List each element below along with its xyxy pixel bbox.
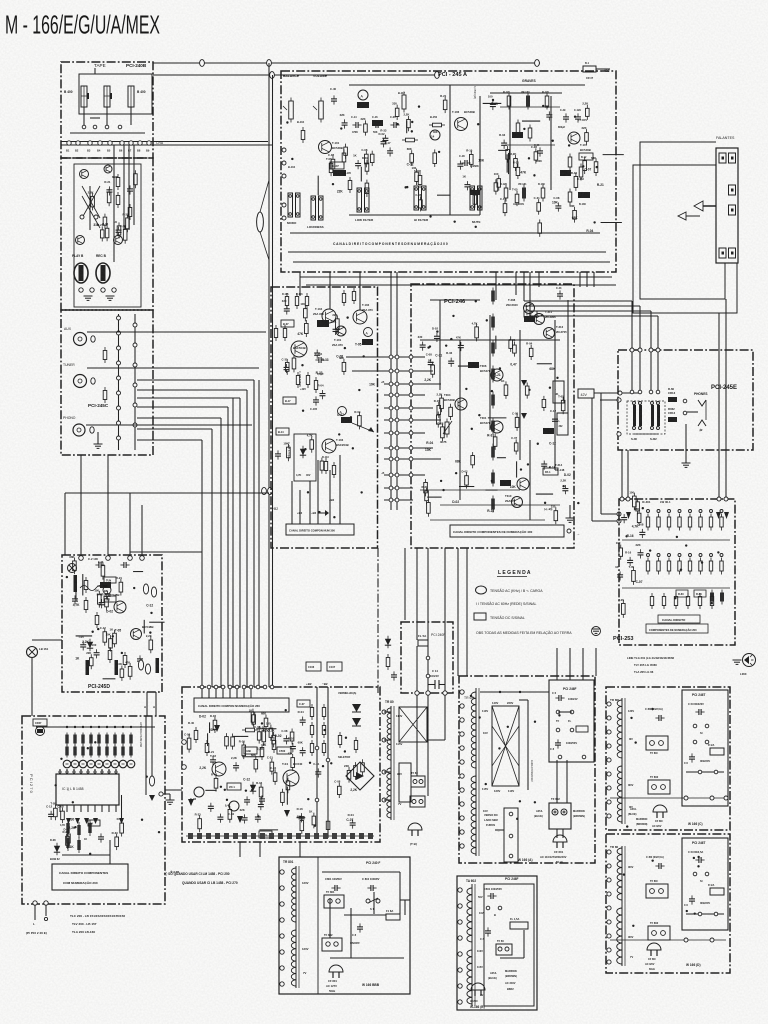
junction buspinL3 bbox=[389, 393, 393, 397]
resistor l-colB-2 bbox=[82, 745, 84, 758]
resistor bbox=[595, 158, 597, 162]
junction left pin5 bbox=[282, 216, 286, 220]
wire bbox=[497, 457, 506, 459]
junction i-p1-7 bbox=[720, 510, 723, 513]
wire g-int7 bbox=[413, 447, 433, 449]
resistor bbox=[255, 756, 257, 760]
junction dot bbox=[475, 226, 477, 228]
capacitor bbox=[466, 181, 468, 185]
resistor bbox=[104, 214, 106, 218]
junction dot bbox=[158, 831, 160, 833]
junction i-p1-4 bbox=[689, 510, 692, 513]
resistor m-r20 bbox=[339, 732, 341, 736]
junction sw1 bbox=[80, 215, 84, 219]
switch S1 o bbox=[366, 899, 370, 903]
resistor mc-r105 bbox=[286, 293, 288, 297]
electrolytic m-c04 bbox=[229, 801, 239, 811]
electrolytic l-4 bbox=[95, 760, 103, 768]
resistor gr-126 bbox=[546, 93, 548, 97]
wire busstub3 bbox=[384, 394, 413, 396]
junction dot bbox=[471, 428, 473, 430]
circled MC bbox=[36, 727, 45, 736]
resistor k-r5 bbox=[124, 652, 126, 656]
junction p-p8 bbox=[460, 802, 464, 806]
junction canal400 bbox=[567, 529, 571, 533]
resistor bbox=[535, 148, 537, 152]
arrow spk 2 bbox=[678, 215, 700, 217]
resistor l-low3 bbox=[78, 822, 80, 838]
blob e3 bbox=[560, 170, 571, 176]
wire g v5 bbox=[567, 300, 569, 420]
wire ic pin b7 bbox=[108, 805, 110, 812]
junction pf-6 bbox=[582, 755, 586, 759]
junction dot bbox=[701, 561, 703, 563]
wire m-top stub6 bbox=[243, 689, 245, 698]
resistor bbox=[129, 663, 131, 667]
capacitor bbox=[302, 747, 304, 751]
boxed label e1 bbox=[330, 162, 344, 169]
resistor bbox=[121, 665, 123, 669]
legend rect bbox=[474, 613, 486, 620]
capacitor mn-3 bbox=[393, 671, 395, 675]
junction in-L3 bbox=[117, 361, 121, 365]
junction dot bbox=[623, 873, 625, 875]
transformer TR801 coil1 bbox=[292, 868, 297, 922]
junction head lead 4 bbox=[118, 125, 122, 129]
resistor bbox=[411, 150, 413, 154]
junction buspinL6 bbox=[389, 431, 393, 435]
circled A e1 bbox=[358, 90, 368, 100]
junction dot bbox=[338, 433, 340, 435]
wire p feed1 bbox=[556, 760, 558, 803]
junction dot bbox=[332, 183, 334, 185]
junction i-left2 bbox=[617, 512, 621, 516]
board tape amp outline bbox=[61, 158, 153, 310]
junction p-p2 bbox=[460, 718, 464, 722]
junction buspinL10 bbox=[389, 486, 393, 490]
junction dot bbox=[537, 443, 539, 445]
junction g-h link bbox=[618, 391, 622, 395]
wire bbox=[406, 121, 408, 134]
junction dot bbox=[520, 468, 522, 470]
resistor e-right1 bbox=[569, 154, 571, 158]
wire g v4 bbox=[554, 320, 556, 470]
wire bus h6 bbox=[137, 439, 202, 441]
wire pci245c stub bbox=[97, 432, 99, 444]
blob g1 bbox=[524, 316, 535, 322]
junction i-p1-2 bbox=[668, 510, 671, 513]
junction dot bbox=[245, 789, 247, 791]
capacitor bbox=[422, 342, 424, 346]
wire m-top stub0 bbox=[201, 689, 203, 698]
resistor bbox=[426, 487, 428, 491]
board TA602 inner bbox=[484, 884, 534, 1006]
resistor bbox=[265, 715, 267, 719]
wire mc cross2 bbox=[352, 370, 391, 372]
wire gr h2 bbox=[505, 144, 555, 146]
wire busstub8 bbox=[384, 458, 413, 460]
head R gap bbox=[110, 93, 112, 99]
junction p-p4 bbox=[460, 746, 464, 750]
label m-bot-8 bbox=[260, 833, 265, 839]
resistor i-r2-7 bbox=[721, 558, 723, 562]
junction dot bbox=[499, 367, 501, 369]
boxed label m1 bbox=[297, 700, 310, 707]
label m-bot-13 bbox=[305, 833, 310, 839]
head L symbol bbox=[81, 86, 87, 107]
resistor i-r3-1 bbox=[663, 593, 665, 597]
junction dot bbox=[534, 801, 536, 803]
wire spk feed1 bbox=[524, 300, 632, 302]
capacitor C-129 bbox=[577, 113, 579, 117]
transistor T-107 bbox=[568, 132, 580, 144]
resistor bbox=[273, 732, 275, 736]
resistor bbox=[54, 805, 56, 809]
junction n-b2 bbox=[426, 691, 430, 695]
wire top bus upper bbox=[153, 62, 540, 64]
wire phono out bbox=[86, 424, 252, 426]
capacitor C-14e bbox=[352, 124, 356, 126]
resistor m-st1c bbox=[311, 740, 313, 744]
resistor bbox=[514, 155, 516, 159]
capacitor r2-c bbox=[655, 865, 659, 867]
blob k1 bbox=[100, 582, 111, 588]
junction m-top5 bbox=[235, 685, 239, 689]
junction dot bbox=[438, 151, 440, 153]
label m-bot-15 bbox=[323, 833, 328, 839]
resistor bbox=[332, 156, 334, 160]
wire bbox=[75, 592, 77, 601]
junction r1-p6 bbox=[607, 786, 611, 790]
wire spk feed4 bbox=[530, 315, 658, 317]
junction n-b3 bbox=[443, 691, 447, 695]
wire ic pin t0 bbox=[59, 769, 61, 774]
wire l top bus bbox=[36, 726, 155, 728]
connector pin CRA-9 bbox=[147, 141, 151, 145]
wire mo-2 bbox=[259, 842, 261, 857]
junction buspinL5 bbox=[389, 418, 393, 422]
wire ic pin b8 bbox=[115, 805, 117, 812]
switch LOW FILTER bbox=[357, 188, 362, 212]
junction m-top6 bbox=[242, 685, 246, 689]
junction dot bbox=[91, 631, 93, 633]
wire bbox=[207, 733, 209, 746]
dark blob e5 bbox=[578, 192, 590, 198]
resistor bbox=[438, 402, 440, 406]
resistor bbox=[495, 179, 497, 183]
junction l-bus-5 bbox=[106, 726, 108, 728]
wire spk feed rise2 bbox=[529, 272, 531, 316]
junction m-top7 bbox=[249, 685, 253, 689]
wire busstub5 bbox=[384, 419, 413, 421]
junction dot bbox=[350, 416, 352, 418]
transformer TA602 core bbox=[471, 884, 473, 1006]
capacitor bbox=[460, 342, 462, 346]
junction dot bbox=[226, 799, 228, 801]
switch TF602 bbox=[549, 803, 571, 829]
wire n-down3 bbox=[444, 695, 446, 740]
oval k4 bbox=[145, 664, 150, 674]
wire bbox=[103, 678, 116, 680]
board R2 sub outline bbox=[682, 838, 728, 930]
wire k-a1 bbox=[146, 692, 148, 716]
junction dot bbox=[251, 789, 253, 791]
junction dot bbox=[574, 116, 576, 118]
transistor k-t2 bbox=[131, 629, 142, 640]
junction dot bbox=[149, 631, 151, 633]
blob g2 bbox=[468, 362, 479, 368]
wire mc v4 bbox=[317, 460, 319, 524]
resistor bbox=[199, 815, 201, 819]
resistor bbox=[106, 225, 108, 229]
wire input bus L bbox=[118, 314, 120, 450]
junction pf-5 bbox=[558, 755, 562, 759]
resistor bbox=[450, 404, 452, 408]
resistor i-r3-5 bbox=[711, 593, 713, 597]
resistor bbox=[274, 769, 276, 773]
junction dot bbox=[485, 783, 487, 785]
junction jack 3 bbox=[101, 288, 105, 292]
switch HI FILTER bbox=[414, 186, 419, 210]
capacitor k-c4 bbox=[139, 655, 141, 659]
junction dot bbox=[685, 544, 687, 546]
dc box C107 bbox=[327, 662, 342, 671]
wire l right v1 bbox=[145, 716, 147, 795]
resistor e-b104 bbox=[302, 127, 304, 131]
wire q-link bbox=[500, 957, 524, 959]
transformer TR80 coil2 bbox=[387, 768, 391, 818]
junction r1-p0 bbox=[607, 702, 611, 706]
resistor l-colB-7 bbox=[122, 745, 124, 758]
capacitor bbox=[107, 591, 109, 595]
resistor bbox=[620, 544, 622, 548]
junction buspinR10 bbox=[395, 486, 399, 490]
junction m-top8 bbox=[256, 685, 260, 689]
label canal direito 201a bbox=[658, 615, 700, 623]
junction h-left1 bbox=[617, 398, 621, 402]
junction dot bbox=[486, 319, 488, 321]
capacitor tape C1 bbox=[129, 185, 131, 189]
junction dot bbox=[261, 722, 263, 724]
resistor bbox=[215, 775, 217, 779]
transformer R1 coil2 bbox=[617, 766, 622, 822]
wire mc top3 bbox=[359, 272, 361, 310]
wire g-int3 bbox=[413, 394, 425, 396]
gnd arrow m2 bbox=[284, 810, 290, 817]
board amp outline bbox=[182, 687, 380, 842]
phones jack bbox=[683, 399, 687, 403]
junction vero2 bbox=[509, 834, 513, 838]
resistor bbox=[287, 777, 289, 781]
wire pa long2 bbox=[288, 251, 606, 253]
junction buspinL1 bbox=[389, 369, 393, 373]
capacitor bbox=[641, 529, 643, 533]
resistor bbox=[291, 729, 293, 733]
wire k-a2 bbox=[155, 692, 157, 716]
resistor bbox=[134, 170, 136, 174]
plug r1 bbox=[653, 805, 667, 812]
switch TF801 o bbox=[324, 895, 344, 908]
junction r1-p8 bbox=[607, 814, 611, 818]
junction dot bbox=[630, 717, 632, 719]
wire graves bus bbox=[490, 92, 562, 94]
junction r2-p1 bbox=[607, 864, 611, 868]
capacitor bbox=[285, 735, 287, 739]
wire g-down2 bbox=[444, 548, 446, 622]
wire g bus2 bbox=[430, 299, 480, 301]
capacitor bbox=[629, 557, 631, 561]
junction l-bus-8 bbox=[130, 726, 132, 728]
wire bus extra v bbox=[232, 398, 234, 687]
junction jack 4 bbox=[112, 288, 116, 292]
resistor bbox=[584, 157, 586, 161]
junction dot bbox=[286, 121, 288, 123]
resistor bbox=[516, 191, 518, 195]
resistor i-r1-0 bbox=[647, 514, 649, 518]
resistor i-r3-3 bbox=[687, 593, 689, 597]
resistor tape R1 bbox=[117, 174, 119, 178]
wire m-l link bbox=[165, 789, 182, 791]
resistor m-st2b bbox=[323, 722, 325, 726]
resistor bbox=[633, 493, 635, 497]
junction dot bbox=[302, 409, 304, 411]
junction m left edge bbox=[182, 765, 187, 770]
ground jack bbox=[84, 295, 93, 297]
junction dot bbox=[470, 695, 472, 697]
junction left pin1 bbox=[282, 148, 286, 152]
wire connector bus lower bbox=[61, 144, 272, 146]
junction dot bbox=[442, 489, 444, 491]
head L gap bbox=[87, 93, 89, 99]
resistor bbox=[416, 169, 418, 173]
resistor m-r12 bbox=[273, 737, 275, 741]
junction o-p5 bbox=[280, 950, 284, 954]
junction in-L0 bbox=[117, 316, 121, 320]
capacitor bbox=[344, 119, 346, 123]
board TR801 outline bbox=[279, 857, 410, 994]
ground input bbox=[94, 443, 103, 445]
capacitor bbox=[450, 358, 452, 362]
dark blob mc1 bbox=[317, 320, 329, 327]
wire b2-k v1 bbox=[80, 455, 82, 558]
capacitor mc-c104 bbox=[315, 359, 319, 361]
lamp LB161 bbox=[27, 647, 38, 658]
resistor bbox=[338, 783, 340, 787]
arrow i-1 bbox=[626, 512, 631, 519]
wire m-top stub3 bbox=[222, 689, 224, 698]
junction dot bbox=[492, 99, 494, 101]
label m-bot-12 bbox=[296, 833, 301, 839]
junction dot bbox=[625, 535, 627, 537]
junction dot bbox=[453, 220, 455, 222]
junction dot bbox=[717, 551, 719, 553]
junction buspinR8 bbox=[395, 457, 399, 461]
wire bus v5 bbox=[211, 429, 213, 687]
junction dot bbox=[307, 491, 309, 493]
wire busstub4 bbox=[384, 407, 413, 409]
junction n-j2 bbox=[426, 674, 430, 678]
capacitor bbox=[210, 803, 212, 807]
resistor m-r11 bbox=[261, 744, 263, 748]
resistor bbox=[575, 173, 577, 177]
resistor bbox=[504, 200, 506, 204]
wire connector bus upper bbox=[61, 141, 268, 143]
pot volume bbox=[320, 98, 322, 102]
resistor bbox=[214, 717, 216, 721]
capacitor oval l bbox=[149, 776, 154, 786]
resistor bbox=[513, 342, 515, 346]
junction in-L5 bbox=[117, 391, 121, 395]
dark blob e1 bbox=[357, 102, 369, 108]
junction dot bbox=[544, 502, 546, 504]
junction dot bbox=[360, 491, 362, 493]
junction buspinL4 bbox=[389, 406, 393, 410]
jack PHONO bbox=[73, 424, 85, 436]
switch q-sw bbox=[496, 944, 512, 955]
resistor m-st2c bbox=[323, 740, 325, 744]
wire bbox=[286, 787, 288, 805]
junction buspinR7 bbox=[395, 446, 399, 450]
wire gr h1 bbox=[500, 106, 560, 108]
resistor m-st1a bbox=[311, 704, 313, 708]
junction dot bbox=[562, 485, 564, 487]
capacitor r1-c2 bbox=[691, 753, 693, 757]
gnd arrow m1 bbox=[188, 799, 194, 806]
resistor bbox=[538, 199, 540, 203]
junction h-top3 bbox=[649, 348, 653, 352]
board TR601 outline bbox=[459, 676, 595, 863]
capacitor p-c2 bbox=[557, 739, 559, 743]
wire busstub9 bbox=[384, 474, 413, 476]
wire g v7 bbox=[459, 340, 461, 500]
resistor bbox=[90, 654, 92, 658]
junction pf-4 bbox=[570, 728, 574, 732]
resistor bbox=[101, 226, 103, 230]
junction i-p2-0 bbox=[647, 554, 650, 557]
junction g-edge0 bbox=[409, 355, 413, 359]
junction dot bbox=[150, 612, 152, 614]
wire h-v2 bbox=[639, 352, 641, 392]
boxed tall L302 bbox=[557, 413, 568, 435]
transformer TR80 core bbox=[390, 706, 392, 820]
label m-bot-9 bbox=[269, 833, 274, 839]
wire 42v out bbox=[594, 392, 640, 394]
junction i-p2-7 bbox=[720, 554, 723, 557]
resistor l-colA-8 bbox=[130, 733, 132, 746]
terminal sq5 bbox=[719, 248, 726, 258]
capacitor m-c05 bbox=[261, 795, 263, 799]
resistor bbox=[555, 507, 557, 511]
resistor bbox=[271, 759, 273, 763]
resistor bbox=[73, 557, 75, 561]
wire m-top stub4 bbox=[229, 689, 231, 698]
wire marker link2 bbox=[260, 180, 269, 212]
junction n-j1 bbox=[426, 656, 430, 660]
transformer TR801 core bbox=[295, 866, 297, 988]
resistor l-colB-6 bbox=[114, 745, 116, 758]
junction g-edge9 bbox=[409, 473, 413, 477]
boxed label l1 bbox=[88, 820, 100, 826]
resistor l-colA-2 bbox=[82, 733, 84, 746]
junction r2-s1 bbox=[693, 872, 697, 876]
capacitor mc-c109 bbox=[277, 450, 279, 454]
junction k-top3 bbox=[128, 556, 133, 561]
capacitor bbox=[96, 649, 98, 653]
pot B-117 bbox=[403, 92, 405, 96]
resistor R-109e bbox=[402, 139, 406, 141]
wire ip-3 bbox=[582, 648, 584, 680]
resistor bbox=[286, 359, 288, 363]
